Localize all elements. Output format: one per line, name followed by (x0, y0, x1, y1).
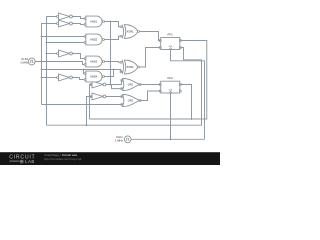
clock source CLK1 (124, 136, 131, 143)
wire branch to AND4 input A (83, 70, 86, 74)
pin inverter input (57, 16, 59, 18)
or gate OR1 (123, 79, 140, 91)
inverter U2 (59, 20, 70, 27)
pin XOR2 input (120, 61, 122, 63)
pin inverter input (57, 77, 59, 79)
pin XOR2 input (120, 71, 122, 73)
svg-text:OR1: OR1 (128, 82, 134, 86)
pin AND input (84, 24, 86, 26)
svg-text:http://circuitlab.com/c/sqn-lq: http://circuitlab.com/c/sqn-lqb (44, 157, 82, 161)
flip-flop FF2 (161, 81, 180, 93)
wire AND4 output up to XOR2 input B row (104, 70, 113, 77)
wire AND3 output to XOR2 input A (104, 61, 120, 64)
junction bus B / OR2 row (46, 104, 48, 106)
pin OR2 input (121, 96, 123, 98)
svg-text:FF1: FF1 (168, 32, 174, 36)
and gate AND2 (86, 34, 102, 45)
wire bus B to AND2 input B (47, 42, 85, 44)
clock wedge FF1 (169, 48, 172, 50)
xor gate XOR1 (124, 25, 137, 39)
pin AND input (84, 42, 86, 44)
pin FF right (179, 90, 181, 92)
junction bus A / XOR2 row (41, 69, 43, 71)
svg-text:1 MHz: 1 MHz (115, 138, 123, 142)
junction bus B / U3 row (46, 53, 48, 55)
clock glyph CLK1 (126, 138, 130, 140)
junction AND4 output / XOR2 row (113, 69, 115, 71)
pin OR2 output (139, 100, 141, 102)
junction AND1 output fanout (110, 21, 112, 23)
svg-text:OR2: OR2 (128, 98, 134, 102)
pin inverter input (57, 53, 59, 55)
wire CLK1 output row (131, 138, 204, 140)
xor gate XOR2 (124, 60, 137, 74)
pin OR1 input (121, 88, 123, 90)
pin FF right (179, 84, 181, 86)
pin AND output (103, 39, 105, 41)
pin FF left (159, 84, 161, 86)
wire bus B to U3 input (47, 53, 57, 55)
wire FF1 Qbar feedback loop to bus B (47, 48, 202, 126)
svg-text:XOR1: XOR1 (127, 29, 135, 33)
inverter U5 (92, 81, 103, 88)
pin AND input (84, 64, 86, 66)
wire FF1 Qbar feedback riser to U6 input (87, 97, 93, 126)
pin AND input (84, 36, 86, 38)
wire OR1 output to FF2 D input (140, 84, 160, 86)
pin AND output (103, 21, 105, 23)
junction FF2 clock / CLK1 row (170, 138, 172, 140)
pin inverter input (90, 96, 92, 98)
and gate AND4 (86, 71, 102, 82)
junction AND4 input branch (83, 69, 85, 71)
wire U6 output to OR2 input A (106, 96, 123, 98)
pin XOR1 output (138, 31, 140, 33)
svg-text:LAB: LAB (25, 159, 35, 164)
pin inverter input (57, 23, 59, 25)
wire OR2 output to FF2 enable input (140, 91, 160, 101)
svg-text:1 MHz: 1 MHz (20, 60, 28, 64)
inverter U6 (92, 93, 103, 100)
wire branch to OR1 input B (112, 85, 123, 89)
pin AND output (103, 76, 105, 78)
wire FF1 Q feedback riser to U5 input (90, 85, 93, 120)
wire AND1 output fanout down to OR1 node (110, 22, 112, 85)
wire FF1 Q feedback loop (90, 41, 207, 120)
wire XOR2 output to FF1 enable input (139, 48, 160, 68)
wire bus A bottom row to OR2 input B (42, 104, 123, 106)
pin XOR1 input (120, 26, 122, 28)
junction bus B / AND2 row (46, 42, 48, 44)
clock glyph CLK2 (30, 60, 34, 62)
wire U2 output to AND1 input B (72, 24, 84, 25)
svg-text:AND3: AND3 (90, 59, 97, 63)
wire CLK1 net to FF2 clock pin (170, 93, 172, 139)
pin AND input (84, 79, 86, 81)
junction bus A / CLK2 row (41, 61, 43, 63)
wire FF2 Q output join to feedback line (180, 85, 191, 120)
pin FF left (159, 47, 161, 49)
pin FF left (159, 40, 161, 42)
or gate OR2 (123, 95, 140, 107)
wire bus A to AND2 input A (42, 36, 85, 38)
watermark bar (0, 152, 220, 165)
wire AND1 output to XOR1 input A (104, 22, 120, 27)
junction bus B / CLK2 row (46, 61, 48, 63)
svg-text:AND2: AND2 (90, 37, 97, 41)
junction U6 riser / Qbar feedback (86, 124, 88, 126)
logo bars (20, 159, 23, 162)
junction bus A / AND2 row (41, 36, 43, 38)
svg-text:XOR2: XOR2 (127, 65, 135, 69)
junction FF2 Q / feedback line (191, 118, 193, 120)
wire U1 output to AND1 input A (72, 17, 84, 19)
svg-text:AND1: AND1 (90, 19, 97, 23)
pin OR1 input (121, 80, 123, 82)
pin inverter input (90, 84, 92, 86)
pin FF right (179, 40, 181, 42)
logo dash (10, 160, 20, 163)
and gate AND1 (86, 16, 102, 27)
wire XOR1 output to FF1 D input (139, 32, 160, 41)
wire bus A to U4 input (42, 77, 57, 79)
inverter U3 (59, 50, 70, 57)
wire bus B (FF1 Qbar feedback net) to U1 input (47, 17, 57, 126)
wire bus A row to XOR2 input B (42, 70, 123, 72)
pin XOR1 input (120, 35, 122, 37)
pin XOR2 output (138, 66, 140, 68)
flip-flop FF1 (161, 38, 180, 50)
wire U3 output to AND3 input A (72, 54, 84, 59)
junction bus A / U4 row (41, 77, 43, 79)
pin OR1 output (139, 84, 141, 86)
wire AND2 output to XOR1 input B (104, 36, 120, 39)
pin AND output (103, 61, 105, 63)
wire bus A (CLK2 net) to U2 input (42, 24, 57, 105)
junction OR1 node (110, 84, 112, 86)
wire CLK1 net to FF1 clock pin (171, 50, 205, 140)
wire CLK2 output row to AND3 input B (35, 62, 84, 65)
svg-text:AND4: AND4 (90, 74, 97, 78)
pin OR2 input (121, 104, 123, 106)
wire U5 output to OR1 input A (106, 80, 123, 84)
pin FF right (179, 47, 181, 49)
and gate AND3 (86, 56, 102, 67)
pin AND input (84, 73, 86, 75)
pin AND input (84, 58, 86, 60)
clock source CLK2 (28, 58, 35, 65)
wire U4 output to AND4 input B (72, 78, 84, 80)
inverter U1 (59, 13, 70, 20)
pin FF left (159, 90, 161, 92)
inverter U4 (59, 74, 70, 81)
pin AND input (84, 18, 86, 20)
svg-text:FF2: FF2 (168, 76, 174, 80)
clock wedge FF2 (169, 91, 172, 93)
